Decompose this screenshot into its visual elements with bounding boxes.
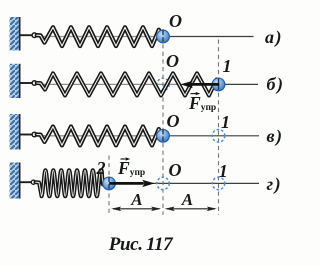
hook row v	[32, 132, 37, 137]
node 1 row g	[219, 162, 228, 182]
node O row v	[167, 112, 180, 132]
dashed vertical line at 1	[218, 40, 220, 216]
F upr label row b	[189, 94, 216, 113]
ghost dashed circle at 1 row g	[212, 177, 224, 189]
hook row a	[32, 33, 37, 38]
spring row b (stretched, ball at 1)	[37, 73, 217, 95]
dashed line over ball a	[162, 31, 164, 44]
amplitude arrow A left (2 to O)	[111, 207, 161, 212]
F upr label row g	[118, 159, 145, 178]
node O row a	[169, 12, 182, 32]
wall row v	[10, 114, 21, 150]
spring row g (compressed, ball at 2)	[36, 170, 103, 196]
ghost dashed circle at O row b	[157, 78, 169, 90]
amplitude label A right	[182, 191, 193, 210]
spring row a (natural length, ball at O)	[37, 27, 163, 46]
rod row b	[20, 82, 32, 84]
small vector arrow over F (row g)	[121, 157, 131, 160]
rod row v	[20, 134, 32, 136]
node O row g	[169, 161, 182, 181]
node 1 row v	[221, 113, 230, 133]
amplitude label A left	[131, 191, 142, 210]
wall row a	[10, 17, 21, 51]
ball row g at 2	[103, 177, 116, 190]
hook row b	[32, 81, 37, 86]
label v)	[267, 127, 284, 147]
dashed vertical line at O	[162, 29, 164, 215]
row v) axis line (right part)	[157, 135, 259, 137]
row a) axis line (right part)	[157, 36, 254, 38]
label a)	[265, 28, 283, 48]
caption Ris. 117	[109, 235, 172, 256]
rod row g	[20, 181, 31, 183]
wall row g	[10, 163, 21, 199]
label g)	[267, 175, 283, 195]
row a) axis line (through spring)	[37, 36, 157, 38]
ghost dashed circle at 1 row v	[212, 130, 225, 143]
dashed line over ball g	[108, 177, 110, 190]
ghost dashed circle at O row g	[157, 177, 169, 189]
node 2 row g	[97, 159, 106, 179]
node O row b	[166, 52, 179, 72]
ball row a at O	[157, 30, 170, 43]
force arrow row b (points left)	[181, 81, 220, 88]
ball row v at O	[157, 129, 170, 142]
amplitude arrow A right (O to 1)	[165, 207, 217, 212]
spring row v (natural length, ball at O)	[37, 127, 163, 146]
force arrow row g (points right)	[109, 180, 154, 187]
ball row b at 1	[212, 78, 225, 91]
row g) axis line (right part)	[103, 182, 259, 184]
dashed line over ball b	[218, 79, 220, 92]
dashed vertical line at 2	[108, 156, 110, 216]
row g) axis line (through spring)	[37, 182, 103, 184]
row b) axis line (through spring)	[37, 83, 213, 85]
hook row g	[31, 180, 35, 184]
row b) axis line (right part)	[213, 83, 259, 85]
wall row b	[10, 64, 21, 98]
node 1 row b	[223, 57, 232, 77]
dashed line over ball v	[162, 130, 164, 143]
small vector arrow over F (row b)	[191, 92, 201, 95]
row v) axis line (through spring)	[37, 135, 157, 137]
label b)	[267, 75, 285, 95]
rod row a	[20, 34, 32, 36]
